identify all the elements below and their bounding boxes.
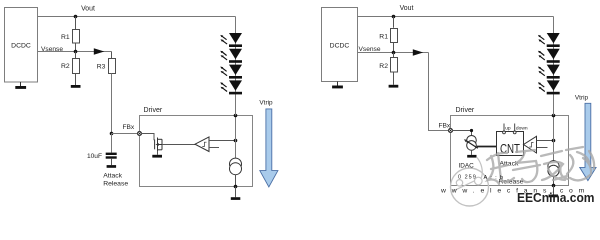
LED D7 (right) xyxy=(538,65,560,79)
ground (under right DCDC) xyxy=(332,82,343,89)
wire FBx pin to gate xyxy=(141,134,154,141)
svg-text:Attack: Attack xyxy=(103,173,122,180)
svg-text:Vtrip: Vtrip xyxy=(575,94,589,101)
wire Vsense to FBx (right) xyxy=(429,53,451,131)
pin down xyxy=(513,124,528,134)
resistor R2 (left) xyxy=(73,59,80,74)
svg-text:DCDC: DCDC xyxy=(330,42,350,49)
wire IDAC to CNT (bus) xyxy=(477,146,497,148)
svg-text:DCDC: DCDC xyxy=(11,42,31,49)
wire R1 bottom lead (left) xyxy=(75,43,77,51)
ground (under left DCDC) xyxy=(15,82,26,89)
svg-text:R1: R1 xyxy=(61,34,70,41)
wire LED column inside driver (right) xyxy=(553,116,555,161)
counter CNT xyxy=(497,132,524,156)
junction (LED wire enters left driver) xyxy=(234,114,238,118)
wire R2 top lead (left) xyxy=(75,52,77,59)
junction (left FBx node) xyxy=(110,132,114,136)
ground (right driver output) xyxy=(549,186,559,198)
svg-text:Vout: Vout xyxy=(400,5,414,12)
wire Vsense (left) xyxy=(38,51,112,53)
junction (right sense) xyxy=(552,139,556,143)
svg-text:down: down xyxy=(516,125,528,131)
wire R1 top lead (left) xyxy=(75,17,77,30)
svg-text:R2: R2 xyxy=(379,63,388,70)
LED D1 (left) xyxy=(220,33,242,47)
label Attack Release (right) xyxy=(499,160,524,185)
svg-text:Vout: Vout xyxy=(81,6,95,13)
wire current source to box bottom xyxy=(235,175,237,187)
svg-text:A : : b: A : : b xyxy=(484,175,504,181)
resistor R2 (right) xyxy=(391,58,398,73)
wire LED column inside driver (left) xyxy=(235,116,237,159)
svg-text:Vtrip: Vtrip xyxy=(259,99,273,106)
LED D4 (left) xyxy=(220,80,242,94)
wire R1 top lead (right) xyxy=(393,17,395,28)
wire R3 top lead xyxy=(111,52,113,59)
junction (right Vout / R1) xyxy=(392,15,396,19)
wire Vout rail (left) xyxy=(38,16,236,18)
Vtrip arrow (left) xyxy=(260,109,278,187)
wire comparator input to sense node (right) xyxy=(537,140,554,142)
wire R3 to FBx node xyxy=(111,74,113,134)
svg-text:R2: R2 xyxy=(61,63,70,70)
svg-text:Driver: Driver xyxy=(456,107,475,114)
junction (right Vsense) xyxy=(392,51,396,55)
LED D2 (left) xyxy=(220,49,242,63)
resistor R1 (right) xyxy=(391,29,398,43)
label Attack Release (left) xyxy=(103,173,128,188)
junction (left sense) xyxy=(234,139,238,143)
wire Q1 to comparator xyxy=(162,144,195,146)
ground (under IDAC) xyxy=(467,150,476,157)
ground (under right R2) xyxy=(389,72,399,87)
wire R2 top lead (right) xyxy=(393,53,395,58)
transistor Q1 (left NMOS) xyxy=(155,138,162,152)
Vtrip arrow (right) xyxy=(580,103,596,180)
wire comparator input to sense node xyxy=(209,140,236,142)
LED D6 (right) xyxy=(538,49,560,63)
junction (LED wire enters right driver) xyxy=(552,114,556,118)
LED D5 (right) xyxy=(538,33,560,47)
svg-text:R1: R1 xyxy=(379,34,388,41)
resistor R3 xyxy=(109,59,116,74)
wire LED string (left) xyxy=(235,17,237,116)
Driver block (right) xyxy=(451,116,569,186)
svg-text:R3: R3 xyxy=(97,64,106,71)
Driver block (left) xyxy=(140,116,253,187)
wire reference stub (left) xyxy=(209,147,219,149)
junction (left box bottom) xyxy=(234,185,238,189)
wire Vout rail (right) xyxy=(358,16,554,18)
current source IDAC xyxy=(467,136,477,151)
LED D3 (left) xyxy=(220,65,242,79)
wire cap lead (left) xyxy=(111,134,113,153)
pin FBx (right) xyxy=(448,128,452,132)
LED D8 (right) xyxy=(538,80,560,94)
ground (left driver output) xyxy=(231,187,241,200)
svg-text:Driver: Driver xyxy=(144,107,163,114)
DCDC converter block (right) xyxy=(322,8,358,82)
svg-text:FBx: FBx xyxy=(123,124,135,131)
wire R1 bottom lead (right) xyxy=(393,43,395,53)
current source I2 (right) xyxy=(548,161,559,177)
wire current source to box bottom (right) xyxy=(553,176,555,185)
wire Vsense (right) xyxy=(358,52,429,54)
current source I1 (left) xyxy=(230,158,242,175)
arrow on Vsense wire (right) xyxy=(413,49,423,56)
svg-text:EECnina.com: EECnina.com xyxy=(517,190,595,205)
junction (IDAC top) xyxy=(470,129,473,132)
DCDC converter block (left) xyxy=(5,8,38,83)
junction (left Vsense) xyxy=(74,50,78,54)
svg-text:0 259: 0 259 xyxy=(458,175,477,181)
op-amp U1 (left comparator) xyxy=(195,137,209,152)
svg-text:up: up xyxy=(505,127,511,132)
ground (under Q1) xyxy=(152,151,162,158)
ground (under 10uF) xyxy=(107,159,117,168)
junction (left Vout / R1) xyxy=(74,15,78,19)
resistor R1 (left) xyxy=(73,30,80,44)
pin up xyxy=(503,124,511,134)
wire reference stub (right) xyxy=(537,147,548,149)
wire FBx node to pin (left) xyxy=(112,133,139,135)
capacitor 10uF xyxy=(87,153,117,160)
junction (right box bottom) xyxy=(552,184,556,188)
ground (under left R2) xyxy=(71,74,81,88)
svg-text:10uF: 10uF xyxy=(87,153,102,160)
arrow on Vsense wire (left) xyxy=(94,48,105,55)
wire LED string (right) xyxy=(553,17,555,116)
svg-text:Release: Release xyxy=(103,181,128,188)
wire FBx pin to IDAC xyxy=(452,131,471,136)
pin FBx (left) xyxy=(137,131,141,135)
op-amp U2 (right comparator) xyxy=(524,136,537,153)
